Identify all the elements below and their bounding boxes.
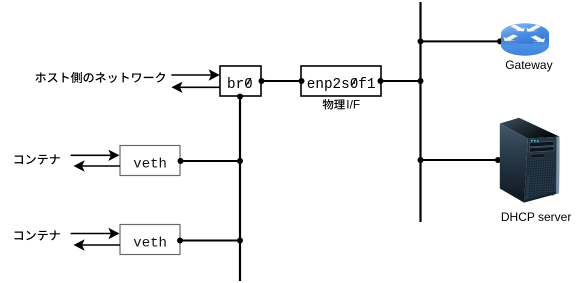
router icon Gateway (501, 23, 549, 55)
wire right bus to Gateway (421, 40, 501, 42)
junction dot bus at veth2 wire (237, 238, 243, 244)
arrow veth1 to container1 (82, 165, 120, 167)
label physical I/F (JP) (323, 99, 345, 110)
svg-text:DHCP server: DHCP server (501, 210, 571, 224)
svg-text:Gateway: Gateway (505, 58, 552, 72)
arrow veth2 to container2 (82, 244, 120, 246)
box enp2s0f1 (301, 66, 381, 96)
arrow br0 to host (left) (180, 86, 220, 88)
right bus (physical network segment) (419, 2, 421, 222)
arrow host to br0 (right) (171, 74, 211, 76)
wire veth1 to left bus (180, 160, 240, 162)
junction dot veth2 right (177, 238, 183, 244)
svg-text:veth: veth (133, 156, 167, 172)
label host-side network (JP) (35, 72, 165, 83)
junction dot veth1 right (178, 158, 184, 164)
box veth2 (120, 225, 180, 255)
junction dot br0 right (259, 78, 265, 84)
wire right bus to DHCP server (421, 159, 499, 161)
junction dot at DHCP server (495, 157, 501, 163)
svg-text:I/F: I/F (346, 98, 360, 112)
junction dot bus at dhcp wire (418, 157, 424, 163)
junction dot bus at gateway wire (418, 38, 424, 44)
box br0 (220, 66, 261, 96)
arrow container1 to veth1 (71, 154, 111, 156)
box veth1 (120, 146, 180, 176)
wire br0 to enp2s0f1 (260, 80, 302, 82)
junction dot enp2s0f1 right (378, 78, 384, 84)
junction dot enp2s0f1 left (299, 78, 305, 84)
label container 1 (JP) (15, 154, 60, 164)
junction dot below br0 (237, 94, 243, 100)
label container 2 (JP) (15, 230, 60, 240)
junction dot bus at enp2s0f1 wire (418, 78, 424, 84)
svg-text:veth: veth (133, 235, 167, 251)
svg-text:br0: br0 (227, 77, 253, 93)
wire veth2 to left bus (180, 240, 240, 242)
junction dot bus at veth1 wire (237, 158, 243, 164)
arrow container2 to veth2 (71, 233, 111, 235)
server icon DHCP (500, 118, 560, 203)
left bus (bridge segment below br0) (239, 97, 241, 282)
junction dot at Gateway (497, 38, 503, 44)
svg-text:enp2s0f1: enp2s0f1 (307, 77, 376, 93)
wire enp2s0f1 to right bus (380, 80, 421, 82)
